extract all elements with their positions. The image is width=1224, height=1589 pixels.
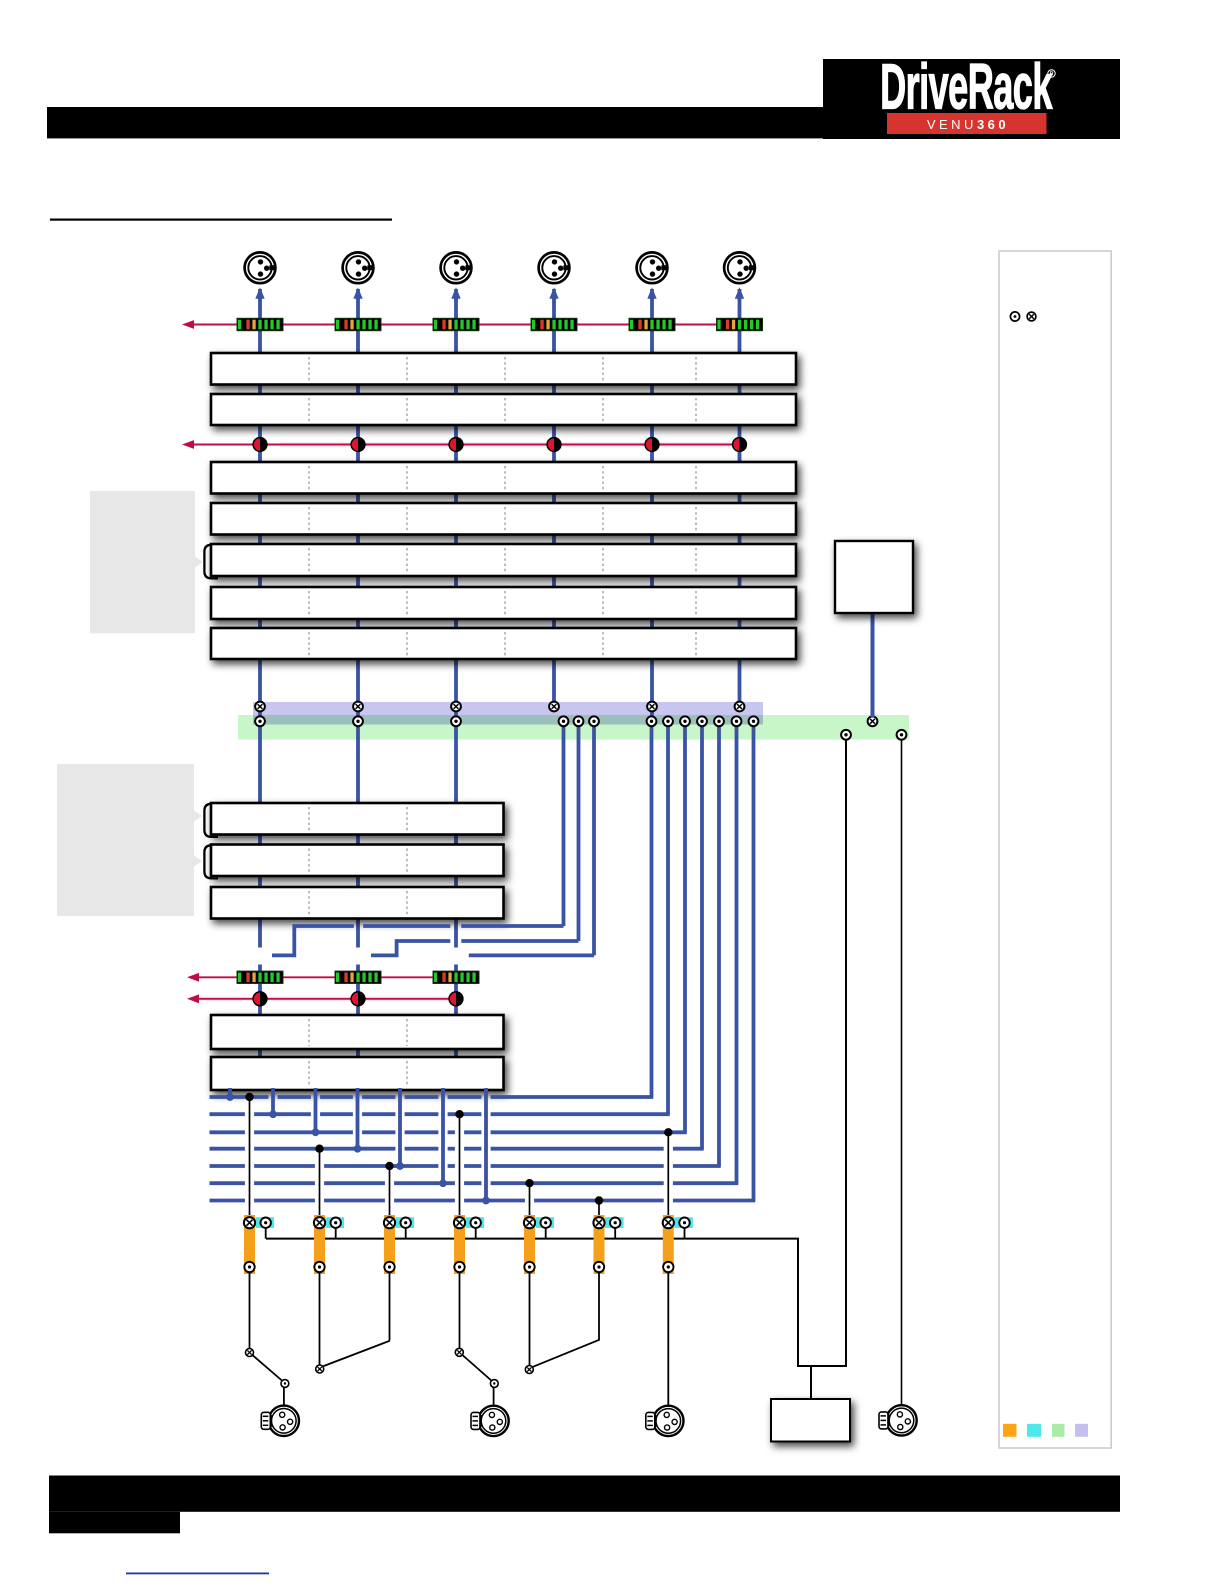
svg-text:VENU360: VENU360: [927, 117, 1009, 132]
svg-text:DriveRack: DriveRack: [880, 52, 1052, 123]
